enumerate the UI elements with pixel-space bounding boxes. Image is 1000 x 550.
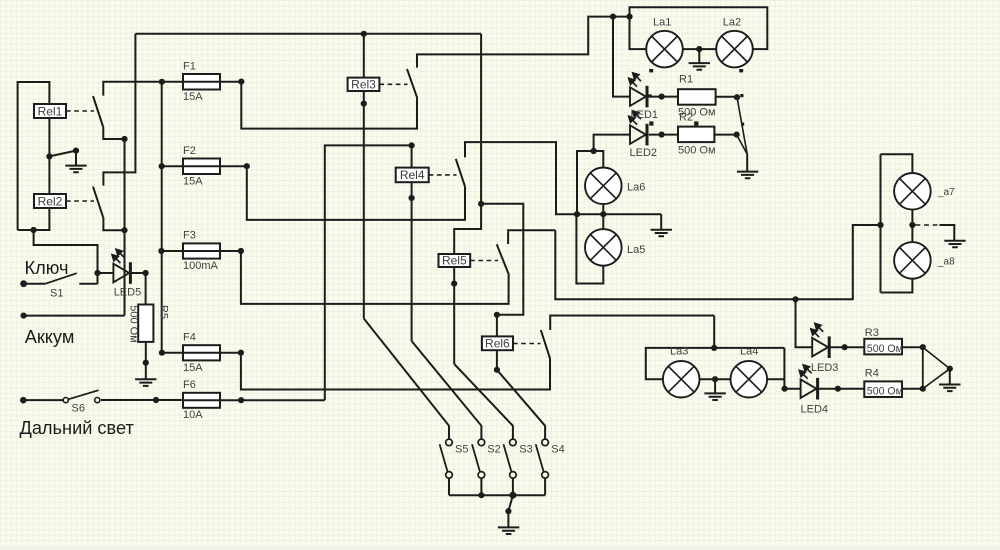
wire Rel6 contact lower terminal to F4: [241, 353, 550, 390]
lamp La2: [716, 31, 753, 68]
wire La mid ground stub: [698, 49, 700, 63]
relay Rel2: [34, 194, 66, 208]
wire central feed to Rel6 branch: [481, 204, 523, 315]
node junction R4 out: [920, 386, 926, 392]
wire R3-R4 tie: [922, 347, 924, 389]
wire Rel4 coil rail down: [411, 182, 413, 341]
wire LED4 to R4: [818, 388, 864, 390]
switch S4 top contact: [542, 439, 549, 446]
relay Rel1: [34, 104, 66, 118]
switch lever Rel4 contact: [456, 159, 465, 187]
svg-text:La5: La5: [627, 244, 645, 256]
svg-text:15A: 15A: [183, 362, 203, 374]
svg-text:S4: S4: [551, 444, 564, 456]
switch S6 left contact: [63, 398, 68, 403]
svg-text:La1: La1: [653, 16, 671, 28]
ground symbol R3 R4: [939, 385, 960, 392]
LED LED1: [630, 86, 647, 108]
wire La1 to La2: [682, 48, 717, 50]
switch lever Rel6 contact: [541, 330, 550, 358]
node junction LED2 feed: [591, 148, 597, 154]
svg-text:S3: S3: [519, 444, 532, 456]
relay Rel3: [348, 78, 380, 91]
wire LED5 cathode: [132, 272, 146, 274]
svg-text:_a7: _a7: [937, 187, 955, 198]
switch S2 top contact: [478, 439, 485, 446]
node junction bus ground tap: [509, 492, 516, 499]
svg-text:R4: R4: [865, 368, 879, 380]
wire R4 slant to ground: [923, 369, 950, 389]
wire coil rail below Rel2: [18, 208, 50, 230]
wire switch common bus: [449, 494, 545, 496]
svg-text:S1: S1: [50, 287, 63, 299]
node junction La1-La2: [696, 46, 702, 52]
switch S4 bottom contact: [542, 472, 549, 479]
LED LED3: [812, 336, 829, 358]
switch lever coil ground tap: [49, 151, 76, 157]
wire F6 riser to Rel4 coil: [325, 145, 412, 400]
switch lever S5: [440, 444, 448, 472]
switch lever Rel2 contact: [93, 187, 103, 218]
svg-text:R3: R3: [865, 327, 879, 339]
node junction coil bottom: [30, 227, 36, 233]
lamp La1: [646, 31, 683, 68]
svg-text:La2: La2: [723, 16, 741, 28]
switch lever S1: [46, 273, 77, 284]
LED4 light arrows: [799, 365, 811, 379]
wire Akkum to battery rail: [24, 315, 125, 317]
node junction F3 out: [238, 248, 244, 254]
svg-text:La6: La6: [627, 182, 645, 194]
node junction coil rail tap: [46, 153, 52, 159]
pin square La2: [739, 69, 743, 72]
wire Rel3 coil rail down: [363, 91, 365, 319]
wire S6 to F6: [101, 399, 183, 401]
LED LED2: [630, 124, 647, 146]
wire La6 bottom: [602, 203, 604, 214]
svg-text:LED2: LED2: [630, 147, 658, 159]
node junction LED4 feed: [782, 386, 788, 392]
wire La4 loop right drop: [783, 348, 785, 389]
svg-text:500 Ом: 500 Ом: [127, 305, 139, 343]
node junction ground tap 2: [505, 508, 511, 514]
node junction LED2 out: [659, 132, 665, 138]
node junction R5 ground: [143, 360, 149, 366]
node junction Rel5 coil bottom: [451, 281, 457, 287]
wire central feed drop: [480, 34, 482, 204]
wire a7 top arm: [881, 154, 913, 173]
LED LED4: [801, 378, 818, 400]
node junction LED1 rail tap: [610, 14, 616, 20]
svg-text:15A: 15A: [183, 91, 203, 103]
node junction a7-a8: [909, 222, 915, 228]
pin square LED2: [649, 121, 653, 125]
svg-text:Rel1: Rel1: [38, 104, 63, 118]
node S1 left terminal: [20, 280, 27, 287]
node junction F2 in: [159, 163, 165, 169]
node junction Rel3 coil feed: [361, 31, 367, 37]
switch lever Rel5 contact: [497, 244, 509, 275]
wire La3 La4 ground stub: [714, 379, 716, 393]
svg-text:F6: F6: [183, 379, 196, 391]
wire a7a8 loop left: [880, 154, 882, 292]
wire Rel2 contact lower terminal: [103, 217, 124, 230]
pin square mid slant: [741, 123, 744, 126]
switch S3 bottom contact: [510, 472, 517, 479]
svg-text:F3: F3: [183, 230, 196, 242]
svg-text:Дальний свет: Дальний свет: [20, 418, 135, 438]
wire LED3 to R3: [830, 346, 864, 348]
wire La2 return loop: [630, 7, 768, 49]
svg-text:La4: La4: [740, 346, 758, 358]
wire Rel1 contact upper terminal: [103, 82, 162, 96]
svg-text:500 Ом: 500 Ом: [867, 343, 903, 355]
svg-text:S5: S5: [455, 444, 468, 456]
svg-text:_a8: _a8: [937, 257, 955, 268]
svg-text:10A: 10A: [183, 409, 203, 421]
resistor R3: [864, 339, 902, 355]
node junction Rel2 switch out: [121, 227, 127, 233]
node junction R2 out: [734, 132, 740, 138]
wire R5 ground stub: [145, 363, 147, 379]
ground symbol La1 La2: [689, 63, 710, 70]
resistor R5: [138, 305, 153, 342]
ground symbol La6 La5: [651, 230, 672, 237]
node junction F6 out: [238, 397, 244, 403]
wire ground tap stub: [75, 151, 77, 166]
wire LED1 to R1: [649, 96, 678, 98]
lamp La6: [585, 168, 622, 205]
wire left rail Rel1 coil top: [18, 82, 50, 230]
wire main top rail: [135, 33, 481, 35]
wire diagonal Rel5 rail to S3: [454, 364, 513, 439]
svg-text:500 Ом: 500 Ом: [867, 386, 903, 398]
ground symbol La3 La4: [704, 393, 725, 400]
wire diagonal Rel3 rail to S5: [364, 319, 449, 440]
switch lever Rel3 contact: [407, 69, 417, 98]
bottom edge band: [0, 546, 1000, 550]
LED5 light arrows: [112, 249, 124, 263]
node junction F1 out: [238, 79, 244, 85]
wire Rel6 contact upper terminal: [550, 316, 714, 331]
node S6 left terminal: [20, 397, 27, 404]
switch lever S4: [536, 444, 544, 472]
node junction Rel4 coil top: [409, 142, 415, 148]
ground symbol between relays: [65, 166, 86, 173]
wire S6 left: [23, 399, 63, 401]
node junction on S6-F6 wire: [153, 397, 159, 403]
resistor R2: [678, 127, 714, 143]
wire fuse left rail: [161, 82, 163, 353]
switch lever S2: [472, 444, 480, 472]
wire LED2 to R2: [649, 134, 678, 136]
wire a7a8 ground arm: [940, 225, 955, 240]
lamp La5: [585, 229, 622, 266]
svg-text:Rel5: Rel5: [442, 254, 467, 268]
wire mid ground arm: [660, 214, 662, 229]
wire S5 bottom stub: [448, 478, 450, 495]
wire battery rail: [124, 139, 126, 316]
svg-text:R5: R5: [158, 305, 170, 319]
node Akkum terminal: [21, 313, 27, 319]
wire dashed link Rel4: [429, 174, 457, 176]
node junction F4 in: [159, 350, 165, 356]
wire S4 bottom stub: [544, 478, 546, 495]
wire R1 slant to ground: [737, 97, 747, 154]
svg-text:F1: F1: [183, 60, 196, 72]
node junction F3 in: [158, 248, 164, 254]
wire bottom ground stub: [507, 511, 509, 527]
wire Rel4 contact feed: [465, 142, 661, 214]
wire R3R4 ground stub: [949, 369, 951, 385]
wire Rel5 contact lower terminal to F3: [241, 251, 509, 304]
node junction central feed: [478, 201, 484, 207]
svg-text:S2: S2: [487, 444, 500, 456]
node junction F4 out: [238, 350, 244, 356]
node junction LED3 out: [842, 344, 848, 350]
svg-text:Rel4: Rel4: [400, 168, 425, 182]
wire dashed link Rel5: [470, 260, 498, 262]
wire Rel4 contact lower terminal to F2: [247, 166, 465, 220]
node junction La1 feed: [626, 14, 632, 20]
wire La5 top: [602, 214, 604, 230]
node junction R3R4 ground: [947, 366, 953, 372]
wire Rel6 out riser to La3 loop: [713, 316, 715, 348]
node junction Rel6 coil top: [494, 312, 500, 318]
wire R2 out: [714, 134, 736, 136]
svg-text:LED3: LED3: [811, 362, 839, 374]
wire La3 La4 top loop: [646, 348, 785, 379]
wire dashed link Rel2: [66, 200, 94, 202]
svg-text:LED5: LED5: [114, 287, 142, 299]
svg-text:La3: La3: [670, 346, 688, 358]
lamp La4: [731, 361, 768, 398]
lamp a7: [894, 173, 931, 210]
wire F1 to Rel3 contact: [241, 82, 417, 129]
resistor R1: [678, 89, 716, 105]
wire La4 right: [767, 378, 785, 380]
wire LED5 anode feed: [98, 272, 114, 274]
node junction Rel1 switch out: [121, 136, 127, 142]
wire LED3 riser: [796, 299, 813, 347]
svg-text:15A: 15A: [183, 176, 203, 188]
wire coil rail between Rel1 and Rel2: [48, 118, 50, 194]
node junction F2 out: [244, 163, 250, 169]
fuse F4: [162, 345, 241, 360]
wire dashed link Rel3: [379, 83, 407, 85]
fuse F6: [183, 393, 220, 408]
pin square R1 out: [740, 94, 743, 97]
LED3 light arrows: [811, 324, 823, 338]
wire LED4 feed: [785, 388, 801, 390]
switch S6 right contact: [95, 398, 100, 403]
node junction R3 out: [920, 344, 926, 350]
node junction Rel4 coil bottom: [409, 195, 415, 201]
switch lever S6: [68, 390, 98, 399]
ground symbol a7 a8: [944, 241, 965, 248]
wire R1R2 ground stub: [746, 154, 748, 171]
node junction LED3 riser: [792, 296, 798, 302]
node junction Rel3 coil bottom: [361, 101, 367, 107]
svg-text:LED4: LED4: [801, 403, 829, 415]
node junction La3 loop: [711, 345, 717, 351]
wire central feed to Rel5 coil: [454, 204, 481, 254]
wire R4 out: [901, 388, 923, 390]
ground symbol R1 R2: [737, 172, 758, 179]
ground symbol below R5: [135, 379, 156, 386]
svg-text:Rel2: Rel2: [38, 194, 63, 208]
wire Rel2 contact feed from top rail: [103, 34, 135, 186]
wire La6 top feed: [594, 151, 604, 168]
svg-text:500 Ом: 500 Ом: [678, 144, 716, 156]
svg-text:Аккум: Аккум: [25, 327, 75, 347]
svg-text:Ключ: Ключ: [25, 258, 69, 278]
pin square LED1: [649, 94, 652, 97]
wire dashed link Rel1: [66, 110, 94, 112]
wire R1 out: [716, 96, 737, 98]
wire diagonal Rel6 to S4: [497, 370, 545, 439]
node junction La-group left branch: [574, 211, 580, 217]
pin square R2 top: [694, 121, 698, 125]
wire dashed net tie to ground: [916, 224, 940, 226]
wire La3 to La4: [699, 378, 731, 380]
wire bus ground diagonal: [508, 495, 513, 511]
node junction LED5 out: [143, 270, 149, 276]
wire to R5: [145, 273, 147, 305]
wire Rel5 contact upper terminal: [508, 230, 555, 244]
ground symbol bottom: [498, 527, 519, 534]
wire F6 out: [220, 399, 325, 401]
switch lever S3: [504, 444, 512, 472]
wire S3 bottom stub: [512, 478, 514, 495]
wire Rel1 contact lower terminal: [103, 127, 124, 139]
wire R3 out: [901, 346, 923, 348]
fuse F1: [162, 74, 241, 90]
svg-text:LED1: LED1: [631, 109, 659, 121]
switch S3 top contact: [510, 439, 517, 446]
wire a8 bottom arm: [881, 278, 913, 292]
svg-text:S6: S6: [72, 402, 85, 414]
wire Rel3 contact upper terminal: [417, 17, 630, 68]
wire R2 slant to ground: [737, 135, 748, 155]
svg-text:Rel6: Rel6: [485, 337, 510, 351]
wire a7 to a8: [911, 209, 913, 243]
resistor R4: [864, 381, 902, 397]
wire Rel6 coil bottom: [496, 350, 498, 370]
wire La1 feed drop: [630, 17, 647, 50]
relay Rel4: [396, 168, 429, 183]
switch S5 top contact: [446, 439, 453, 446]
wire Rel5 coil bottom rail: [453, 267, 455, 364]
node junction R1 out: [734, 94, 740, 100]
wire Rel4 coil top stub: [411, 145, 413, 167]
lamp La3: [663, 361, 700, 398]
wire Rel5 output to right feed: [555, 225, 880, 299]
node junction La3-La4: [712, 376, 718, 382]
node junction LED5 branch: [94, 270, 100, 276]
svg-text:R1: R1: [679, 74, 693, 86]
wire LED2 feed: [594, 135, 630, 151]
node junction bus S2: [478, 492, 484, 498]
svg-text:F4: F4: [183, 332, 196, 344]
lamp a8: [894, 242, 931, 279]
svg-text:Rel3: Rel3: [351, 78, 376, 92]
node junction a7a8 feed: [877, 222, 883, 228]
wire diagonal Rel4 rail to S2: [412, 341, 482, 439]
switch S5 bottom contact: [446, 472, 453, 479]
fuse F3: [161, 243, 241, 258]
switch S2 bottom contact: [478, 472, 485, 479]
node junction La6-La5: [600, 211, 606, 217]
svg-text:R2: R2: [679, 111, 693, 123]
node junction Rel6 coil bottom: [494, 367, 500, 373]
node junction LED4 out: [835, 386, 841, 392]
wire S1 right stub: [79, 283, 97, 285]
wire S2 bottom stub: [480, 478, 482, 495]
svg-text:F2: F2: [183, 145, 196, 157]
fuse F2: [162, 159, 247, 175]
LED1 light arrows: [629, 73, 641, 87]
wire branch up to LED2: [577, 151, 594, 214]
wire LED1 rail down: [613, 17, 630, 97]
LED2 light arrows: [629, 111, 641, 125]
pin square La1: [649, 69, 653, 72]
svg-text:100mA: 100mA: [183, 260, 219, 272]
node junction F1 in: [159, 79, 165, 85]
switch lever Rel1 contact: [93, 96, 103, 127]
wire Rel6 coil top: [496, 315, 498, 337]
relay Rel5: [439, 254, 471, 267]
wire dashed link Rel6: [513, 343, 541, 345]
wire R5 bottom: [145, 342, 147, 363]
wire S1 left stub: [24, 283, 46, 285]
wire coil bottom to S1 riser: [34, 230, 98, 284]
wire Rel3 coil top: [363, 34, 365, 78]
wire R3 slant to ground: [923, 347, 950, 369]
wire La5 bottom loop: [576, 214, 603, 283]
relay Rel6: [482, 336, 513, 350]
LED LED5: [113, 262, 130, 284]
node junction ground tap: [73, 148, 79, 154]
node junction LED1 out: [659, 94, 665, 100]
